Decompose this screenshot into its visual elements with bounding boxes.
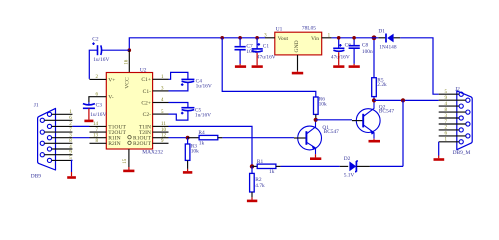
- svg-text:MAX232: MAX232: [142, 150, 163, 156]
- svg-text:C1+: C1+: [141, 77, 151, 83]
- diode D2 zener 5.1V: [280, 156, 403, 179]
- svg-text:14: 14: [93, 122, 99, 127]
- U1 pin 3 Vout: [265, 37, 275, 39]
- voltage regulator U1 78L05: [275, 26, 322, 55]
- U1 pin 1 Vin: [322, 37, 332, 39]
- svg-text:12: 12: [161, 134, 167, 139]
- ground for U1: [297, 71, 299, 72]
- wire J1 pin3 to R1IN: [72, 137, 89, 139]
- connector J1 DB9: [31, 103, 56, 180]
- wire J1 pin5 to ground: [71, 160, 74, 172]
- MAX232 pin 12 R1OUT: [153, 137, 169, 139]
- ground for J1 pin5: [71, 172, 73, 176]
- capacitor C1: [252, 38, 276, 61]
- svg-text:DB9: DB9: [31, 174, 41, 180]
- svg-text:J1: J1: [34, 103, 39, 109]
- MAX232 pin 14 T1OUT: [90, 125, 107, 127]
- svg-text:1u/16V: 1u/16V: [196, 84, 212, 90]
- wire T1IN to R1/R2 node: [169, 126, 253, 166]
- svg-text:BC547: BC547: [324, 129, 340, 135]
- wire Q1 collector to Q2 base: [316, 119, 352, 121]
- U1 pin 2 GND: [297, 55, 299, 71]
- junction R5/Q2 collector: [372, 98, 376, 102]
- svg-text:R2OUT: R2OUT: [133, 141, 152, 147]
- wire D2 riser: [402, 100, 404, 166]
- J1 pin 8: [44, 142, 72, 144]
- wire R4 to Q1 base: [222, 137, 294, 139]
- ground for C7: [239, 64, 241, 65]
- resistor R1: [252, 159, 280, 175]
- ground for MAX232: [128, 167, 130, 170]
- diode D1 1N4148: [378, 28, 400, 50]
- ground for R2: [251, 197, 253, 199]
- svg-text:1N4148: 1N4148: [379, 44, 397, 50]
- MAX232 pin 6 V-: [89, 97, 106, 103]
- MAX232 pin 10 T2IN: [153, 131, 169, 133]
- svg-text:10: 10: [161, 128, 167, 133]
- svg-text:1k: 1k: [269, 169, 275, 175]
- op-amp U2 MAX232 body: [106, 67, 163, 155]
- transistor Q1 BC547: [294, 120, 339, 154]
- svg-text:R4: R4: [198, 130, 205, 136]
- J2 pin 2: [439, 129, 459, 131]
- wire J2 pin1 to ground: [438, 142, 440, 156]
- svg-text:10k: 10k: [319, 101, 327, 107]
- svg-text:Vout: Vout: [278, 36, 289, 42]
- MAX232 pin 13 R1IN: [90, 137, 107, 139]
- svg-text:47u/16V: 47u/16V: [257, 54, 276, 60]
- junction R1OUT/R3/R4: [186, 136, 190, 140]
- svg-text:V+: V+: [108, 77, 115, 83]
- connector J2 DB9_M: [453, 87, 473, 156]
- resistor R4: [188, 130, 223, 146]
- junction T1IN/R1/R2 node: [250, 164, 254, 168]
- J2 pin 4: [439, 105, 459, 107]
- svg-text:1k: 1k: [199, 140, 205, 146]
- svg-text:D1: D1: [378, 28, 385, 34]
- ground for C1: [256, 53, 258, 66]
- svg-text:100n: 100n: [362, 49, 373, 55]
- J1 pin 6: [44, 119, 72, 121]
- capacitor C3: [83, 102, 107, 118]
- J1 pin 2: [52, 125, 73, 127]
- MAX232 pin 15 GND: [128, 149, 130, 167]
- wire D1 to J2 pin 5: [400, 38, 438, 94]
- svg-text:13: 13: [93, 134, 99, 139]
- ground for J2 pin1: [438, 156, 440, 159]
- resistor R3: [185, 138, 199, 169]
- svg-text:47u/16V: 47u/16V: [331, 54, 350, 60]
- capacitor C4: [169, 72, 212, 91]
- MAX232 pin 16 VCC: [128, 50, 130, 72]
- capacitor C8: [349, 38, 373, 64]
- svg-text:GND: GND: [294, 40, 300, 52]
- MAX232 pin 9 R2OUT: [153, 142, 169, 144]
- J1 pin 4: [52, 148, 73, 150]
- MAX232 pin 3 C1-: [153, 90, 169, 92]
- J1 pin 1: [52, 113, 73, 115]
- ground for C8: [353, 64, 355, 65]
- svg-text:V-: V-: [108, 95, 114, 101]
- J2 pin 3: [439, 117, 459, 119]
- svg-text:J2: J2: [455, 87, 460, 93]
- junction rail-C2-pin16: [128, 48, 132, 52]
- wire R5 node to J2 pin 9: [374, 99, 439, 101]
- MAX232 pin 7 T2OUT: [90, 131, 107, 133]
- svg-text:C2: C2: [92, 37, 99, 43]
- wire U1 Vin rail: [332, 37, 379, 39]
- ground for C3: [88, 108, 90, 119]
- J2 pin 8: [439, 111, 466, 113]
- svg-text:10k: 10k: [191, 149, 199, 155]
- capacitor C7: [235, 38, 258, 64]
- svg-text:D2: D2: [344, 156, 351, 162]
- capacitor C6: [331, 38, 351, 61]
- J2 pin 6: [439, 135, 466, 137]
- wire VCC top rail: [129, 38, 265, 50]
- svg-text:C1: C1: [263, 43, 270, 49]
- junction Q1 collector / R6 / Q2 base: [314, 118, 318, 122]
- svg-text:BC547: BC547: [379, 109, 395, 115]
- wire rail to R6: [222, 38, 316, 97]
- svg-text:2.2k: 2.2k: [377, 82, 387, 88]
- svg-text:1u/16V: 1u/16V: [93, 57, 109, 63]
- J2 pin 7: [439, 123, 466, 125]
- svg-text:DB9_M: DB9_M: [453, 150, 471, 156]
- svg-text:15: 15: [123, 158, 128, 164]
- MAX232 pin 11 T1IN: [153, 125, 169, 127]
- capacitor C2: [89, 37, 129, 79]
- capacitor C5: [169, 103, 212, 121]
- wire J1 pin2 to T1OUT: [72, 125, 89, 127]
- J2 pin 1: [439, 141, 459, 143]
- svg-text:78L05: 78L05: [302, 26, 316, 32]
- svg-text:1u/16V: 1u/16V: [90, 112, 106, 118]
- svg-text:1u/16V: 1u/16V: [195, 112, 211, 118]
- svg-text:4.7k: 4.7k: [255, 183, 265, 189]
- junction rail/R5/D1: [372, 35, 377, 40]
- svg-text:C2-: C2-: [143, 112, 152, 118]
- J1 pin 3: [52, 137, 73, 139]
- ground for C6: [338, 52, 340, 65]
- svg-text:5.1V: 5.1V: [344, 173, 355, 179]
- svg-text:C2+: C2+: [141, 100, 151, 106]
- junction rail C7: [238, 36, 242, 40]
- J2 pin 5: [439, 93, 459, 95]
- svg-text:R2: R2: [255, 177, 262, 183]
- junction C6 tap: [337, 36, 341, 40]
- svg-text:R2IN: R2IN: [108, 141, 120, 147]
- resistor R5: [372, 77, 387, 100]
- svg-text:C1-: C1-: [143, 89, 152, 95]
- ground for Q2: [373, 139, 375, 140]
- svg-text:C3: C3: [96, 102, 103, 108]
- J1 pin 7: [44, 131, 72, 133]
- J1 pin 5: [52, 159, 73, 161]
- MAX232 pin 2 V+: [90, 78, 107, 80]
- transistor Q2 BC547: [352, 100, 394, 138]
- junction D2 riser: [401, 98, 405, 102]
- J1 pin 9: [44, 154, 72, 156]
- MAX232 pin 4 C2+: [153, 102, 169, 104]
- ground for Q1: [315, 154, 317, 157]
- svg-text:11: 11: [161, 122, 166, 127]
- junction rail to R6 branch: [220, 36, 224, 40]
- J2 pin 9: [439, 99, 466, 101]
- wire rail to R5: [373, 38, 375, 78]
- MAX232 pin 8 R2IN: [90, 142, 107, 144]
- junction C8 tap: [352, 36, 356, 40]
- svg-text:16: 16: [124, 59, 129, 65]
- MAX232 pin 5 C2-: [153, 113, 169, 115]
- svg-text:C8: C8: [362, 42, 369, 48]
- junction rail C1: [255, 36, 259, 40]
- resistor R6: [314, 97, 327, 120]
- ground for R3: [187, 169, 189, 171]
- svg-text:VCC: VCC: [124, 77, 130, 89]
- MAX232 pin 1 C1+: [153, 78, 169, 80]
- resistor R2: [250, 166, 265, 197]
- svg-text:U1: U1: [276, 27, 283, 33]
- svg-text:Vin: Vin: [311, 36, 319, 42]
- wire R1OUT to R3/R4 node: [169, 137, 188, 139]
- svg-text:R1: R1: [257, 159, 264, 165]
- svg-text:U2: U2: [140, 67, 147, 73]
